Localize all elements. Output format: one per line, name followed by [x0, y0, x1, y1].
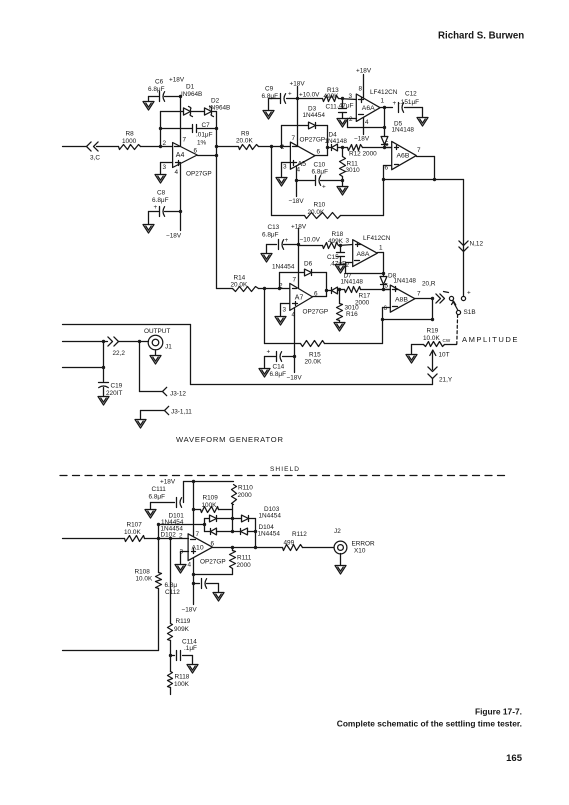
wire A8A pin2 box	[346, 263, 384, 274]
capacitor C11	[326, 99, 354, 119]
svg-text:+18V: +18V	[169, 77, 185, 84]
ground A4 pin3	[155, 175, 166, 184]
capacitor C111	[149, 482, 184, 508]
diode D102	[161, 526, 217, 539]
svg-text:7: 7	[183, 137, 187, 144]
resistor R108	[63, 539, 162, 651]
ground for C14	[259, 357, 270, 378]
wire A4 feedback left	[160, 112, 162, 147]
node ladder mid top	[231, 517, 234, 520]
resistor R9	[217, 131, 291, 150]
wire A10 pin3 gnd	[181, 552, 189, 565]
diode D3	[303, 106, 326, 129]
wire A7 pin3 gnd	[281, 304, 290, 317]
svg-text:A8B: A8B	[395, 297, 408, 304]
node +18V/C6	[179, 95, 182, 98]
svg-text:7: 7	[293, 277, 297, 284]
svg-text:6: 6	[317, 149, 321, 156]
wire A4 pin7 +18V	[169, 77, 185, 147]
svg-text:7: 7	[292, 135, 296, 142]
svg-text:LF412CN: LF412CN	[363, 235, 391, 242]
svg-text:N,12: N,12	[470, 241, 484, 248]
wire A10 output	[213, 547, 283, 549]
resistor R8	[119, 131, 141, 150]
svg-text:6.8μF: 6.8μF	[262, 93, 279, 100]
svg-text:OP27GP: OP27GP	[300, 137, 326, 144]
node C7 right	[215, 127, 218, 130]
svg-text:3: 3	[349, 93, 353, 100]
node R10 tap	[270, 145, 273, 148]
svg-text:C111: C111	[152, 486, 167, 493]
diode D5	[381, 121, 414, 148]
node +18V lower	[192, 480, 195, 483]
svg-text:D102: D102	[161, 532, 177, 539]
svg-text:1N4148: 1N4148	[325, 138, 348, 145]
resistor R110	[232, 485, 254, 505]
svg-text:X10: X10	[354, 548, 366, 555]
svg-text:.151μF: .151μF	[399, 99, 419, 106]
svg-text:100K: 100K	[202, 502, 218, 509]
svg-text:R9: R9	[241, 131, 250, 138]
op-amp A10	[179, 531, 226, 569]
svg-text:1%: 1%	[197, 140, 207, 147]
node ladder mid bottom	[231, 530, 234, 533]
svg-text:D6: D6	[304, 261, 313, 268]
arrow J3-12	[163, 387, 187, 397]
svg-text:1: 1	[381, 98, 385, 105]
svg-text:165: 165	[506, 753, 523, 764]
svg-text:ERROR: ERROR	[352, 541, 375, 548]
svg-text:J3-1,11: J3-1,11	[171, 409, 192, 416]
svg-text:1N4454: 1N4454	[258, 531, 281, 538]
svg-text:R14: R14	[234, 275, 246, 282]
svg-text:10.0K: 10.0K	[124, 529, 141, 536]
node R108 tap	[157, 537, 160, 540]
svg-text:6: 6	[211, 541, 215, 548]
wire A10 pin7 +18V	[160, 479, 194, 537]
svg-text:Figure 17-7.: Figure 17-7.	[475, 707, 522, 717]
svg-text:C7: C7	[202, 122, 211, 129]
node +18V/C13/R18	[297, 243, 300, 246]
svg-text:2000: 2000	[238, 492, 253, 499]
diode D7	[327, 273, 364, 294]
node ladder left	[203, 523, 206, 526]
svg-text:R19: R19	[427, 328, 439, 335]
svg-text:R17: R17	[359, 293, 371, 300]
svg-text:S1B: S1B	[464, 309, 476, 316]
svg-text:8: 8	[359, 86, 363, 93]
svg-text:C8: C8	[157, 190, 166, 197]
svg-text:A7: A7	[295, 295, 304, 302]
svg-text:+: +	[288, 91, 292, 98]
svg-text:+: +	[267, 349, 271, 356]
node R15 tap	[263, 287, 266, 290]
capacitor C19	[99, 383, 123, 398]
node ladder right mid	[254, 530, 257, 533]
svg-text:1: 1	[379, 245, 383, 252]
arrow N,12	[459, 241, 484, 252]
svg-text:C14: C14	[273, 364, 285, 371]
ground R19	[406, 345, 417, 364]
svg-text:+: +	[322, 184, 326, 191]
wire A6B pin5	[385, 147, 392, 149]
svg-text:20.0K: 20.0K	[308, 209, 325, 216]
resistor R10	[272, 147, 384, 219]
arrow 22,2	[108, 337, 125, 357]
resistor R17	[340, 287, 391, 307]
svg-text:A6B: A6B	[397, 153, 410, 160]
svg-text:+18V: +18V	[290, 81, 306, 88]
op-amp A4	[163, 137, 212, 178]
svg-text:4: 4	[188, 562, 192, 569]
svg-text:1N4148: 1N4148	[392, 127, 415, 134]
svg-text:LF412CN: LF412CN	[370, 89, 398, 96]
connector J2	[334, 528, 375, 555]
svg-text:10T: 10T	[439, 352, 450, 359]
wire bus to R14	[217, 288, 233, 290]
svg-text:IN964B: IN964B	[181, 91, 202, 98]
node R109 tap	[192, 508, 195, 511]
svg-text:C13: C13	[268, 224, 280, 231]
svg-text:A10: A10	[192, 545, 204, 552]
ladder left rail	[204, 519, 206, 532]
svg-text:D2: D2	[211, 98, 220, 105]
resistor R11	[340, 148, 361, 181]
svg-text:3: 3	[283, 307, 287, 314]
svg-text:2: 2	[349, 116, 353, 123]
svg-text:−18V: −18V	[287, 375, 303, 382]
wire A4 output bus	[216, 112, 218, 289]
node A6B out fb	[433, 178, 436, 181]
wire A6A out down	[384, 108, 386, 137]
ground for C11	[337, 119, 348, 128]
capacitor C112	[165, 579, 219, 597]
node A4 output/R9	[215, 145, 218, 148]
zener D2	[205, 98, 231, 117]
svg-text:21,Y: 21,Y	[439, 377, 453, 384]
svg-text:−18V: −18V	[289, 198, 305, 205]
switch S1B contact a	[449, 296, 453, 300]
svg-text:.1μF: .1μF	[184, 645, 197, 652]
node C10 right	[341, 179, 344, 182]
wire to N,12	[463, 180, 465, 297]
op-amp A5	[281, 135, 325, 174]
svg-text:2000: 2000	[237, 562, 252, 569]
svg-text:7: 7	[417, 147, 421, 154]
label A7 -18V	[287, 375, 303, 382]
wire ladder to input	[159, 525, 205, 539]
svg-text:R109: R109	[203, 495, 219, 502]
node A7 output/D7	[325, 289, 328, 292]
node R11 tap	[341, 146, 344, 149]
pot R19 wiper	[430, 350, 436, 370]
header author	[438, 31, 524, 42]
svg-text:OP27GP: OP27GP	[303, 309, 329, 316]
ground C111	[145, 503, 156, 519]
label AMPLITUDE	[462, 335, 519, 344]
svg-text:6.8μF: 6.8μF	[148, 86, 165, 93]
svg-text:R119: R119	[176, 618, 191, 625]
svg-text:4: 4	[175, 169, 179, 176]
wire A8A out	[378, 253, 384, 277]
diode D6	[272, 261, 313, 276]
svg-text:3010: 3010	[346, 167, 361, 174]
node A6B pin5	[383, 141, 389, 149]
svg-text:6.8μF: 6.8μF	[152, 197, 169, 204]
wire A5 feedback right	[327, 126, 329, 156]
diode D4	[325, 132, 348, 151]
svg-text:5: 5	[385, 283, 389, 290]
svg-text:AMPLITUDE: AMPLITUDE	[462, 335, 519, 344]
switch S1B contact b	[461, 290, 471, 301]
wire A7 feedback left	[279, 273, 281, 289]
wire A4 pin4 -18V	[166, 165, 182, 240]
wire A5 apex out	[315, 155, 328, 157]
svg-text:J3-12: J3-12	[170, 391, 186, 398]
svg-text:3: 3	[346, 238, 350, 245]
node A4 output apex	[215, 154, 218, 157]
wire A6A pin4 -18V	[354, 118, 370, 143]
svg-text:R107: R107	[127, 522, 143, 529]
ground C112	[213, 584, 224, 602]
svg-text:A4: A4	[176, 152, 185, 159]
resistor R119	[168, 539, 191, 656]
node +18V/C9/R13	[296, 97, 299, 100]
off-page arrow 3,C	[87, 142, 101, 162]
resistor R14	[231, 275, 290, 292]
wire A5 feedback top	[282, 125, 328, 127]
pot R19	[412, 328, 457, 359]
node C19 tap	[102, 340, 105, 343]
ground C114	[187, 656, 198, 674]
resistor R15	[265, 289, 383, 366]
wire A8B out	[415, 299, 433, 320]
op-amp A7	[279, 277, 328, 319]
svg-text:R8: R8	[126, 131, 135, 138]
ground A10 pin3	[175, 565, 186, 574]
svg-text:20,R: 20,R	[422, 281, 436, 288]
svg-text:Richard S. Burwen: Richard S. Burwen	[438, 31, 524, 42]
wire A4 apex to bus	[198, 155, 217, 157]
svg-text:IN964B: IN964B	[209, 105, 230, 112]
diode ladder mid rail	[232, 505, 234, 532]
wire A8B fb bus	[383, 319, 433, 321]
svg-text:.01μF: .01μF	[196, 132, 213, 139]
svg-text:−10.0V: −10.0V	[300, 237, 321, 244]
wire A8B pin5	[384, 289, 391, 291]
svg-text:2: 2	[163, 140, 167, 147]
svg-text:R10: R10	[314, 202, 326, 209]
svg-text:R15: R15	[309, 352, 321, 359]
svg-text:OP27GP: OP27GP	[200, 559, 226, 566]
node A8B pin5	[382, 283, 389, 292]
capacitor C7	[193, 122, 213, 147]
resistor R109	[194, 495, 233, 513]
svg-text:+18V: +18V	[291, 224, 307, 231]
resistor R111	[194, 548, 252, 575]
ground for C10/R11	[337, 181, 348, 196]
svg-text:+18V: +18V	[160, 479, 176, 486]
diode D8	[380, 273, 416, 290]
svg-text:6.8μF: 6.8μF	[149, 494, 166, 501]
resistor R16	[337, 290, 360, 323]
resistor R112	[283, 531, 334, 551]
svg-text:C6: C6	[155, 79, 164, 86]
svg-text:SHIELD: SHIELD	[270, 466, 300, 473]
caption text	[337, 719, 522, 729]
wire A7 feedback top	[280, 272, 327, 274]
node A6A fb	[383, 126, 386, 129]
node A8B out fb	[431, 318, 434, 321]
op-amp A8A	[346, 235, 391, 269]
ladder right rail	[255, 519, 257, 548]
wire A7 apex out	[313, 296, 327, 298]
svg-text:+: +	[467, 290, 471, 297]
svg-text:499: 499	[284, 540, 295, 547]
ground J1	[150, 351, 161, 365]
capacitor C15	[327, 246, 346, 268]
wire A7 pin7 +18V	[291, 224, 307, 289]
connector J1	[144, 328, 172, 351]
node output/ladder	[254, 546, 257, 549]
resistor R107	[124, 522, 189, 542]
node C10 left	[295, 179, 298, 182]
arrow to S1B	[422, 281, 445, 304]
node J3-12 tap	[138, 340, 141, 343]
svg-text:4: 4	[365, 119, 369, 126]
diode D104	[241, 524, 281, 538]
svg-text:OP27GP: OP27GP	[186, 171, 212, 178]
ground J2	[335, 554, 346, 575]
wire A6B out	[417, 157, 435, 180]
wire A4 pin3	[161, 163, 173, 175]
label waveform generator	[176, 435, 284, 444]
ground for C6	[143, 97, 154, 111]
svg-text:C9: C9	[265, 86, 274, 93]
wire A6B fb bus	[384, 179, 464, 181]
op-amp A8B	[384, 285, 422, 312]
wire C7 branch	[161, 128, 217, 130]
svg-text:499K: 499K	[324, 93, 340, 100]
wire zener branch	[161, 111, 217, 113]
ground for C9	[263, 99, 274, 120]
svg-text:1000: 1000	[122, 138, 137, 145]
ground for C15	[335, 265, 346, 274]
wire A6A pin2 box	[348, 119, 385, 128]
page number	[506, 753, 523, 764]
node feedback/C7 left	[159, 127, 162, 130]
svg-text:+18V: +18V	[356, 68, 372, 75]
node A6B fb	[382, 178, 385, 181]
svg-text:20.0K: 20.0K	[231, 282, 248, 289]
svg-text:R118: R118	[175, 674, 190, 681]
svg-text:A6A: A6A	[362, 105, 375, 112]
ground J3-1,11	[135, 420, 146, 429]
svg-text:909K: 909K	[174, 626, 190, 633]
wire C19 branch	[103, 342, 105, 382]
svg-text:C12: C12	[405, 91, 417, 98]
shield dashed line	[60, 475, 505, 477]
node ladder input corner	[157, 523, 160, 526]
ground for C13	[261, 245, 272, 263]
diode D103	[242, 506, 282, 522]
node A5 inverting input	[280, 145, 283, 148]
ground A7 pin3	[275, 317, 286, 326]
svg-text:R108: R108	[135, 569, 151, 576]
wire A5 pin7 +18V	[290, 81, 306, 147]
wire A7 pin4	[294, 309, 296, 373]
wire output J1	[63, 341, 149, 343]
wire A5 pin4 -18V	[289, 167, 305, 206]
svg-text:10.0K: 10.0K	[423, 335, 440, 342]
svg-text:J1: J1	[165, 344, 172, 351]
svg-text:1N4148: 1N4148	[394, 278, 417, 285]
node R119 tap	[169, 537, 172, 540]
svg-text:D1: D1	[186, 84, 195, 91]
svg-text:6: 6	[384, 305, 388, 312]
node C15 tap	[339, 244, 342, 247]
svg-text:−18V: −18V	[182, 607, 198, 614]
node bus3	[102, 366, 105, 369]
arrow J3-1,11	[165, 406, 193, 415]
svg-text:1N4454: 1N4454	[303, 112, 326, 119]
svg-text:6.8μF: 6.8μF	[312, 169, 329, 176]
wire +18V rail	[184, 481, 234, 483]
node R16 tap	[338, 288, 341, 291]
wire A6A pin8 +18V	[356, 68, 372, 98]
svg-text:20.0K: 20.0K	[236, 138, 253, 145]
svg-text:3: 3	[283, 164, 287, 171]
ground A5 pin3	[276, 178, 287, 187]
svg-text:R12 2000: R12 2000	[349, 151, 377, 158]
svg-text:7: 7	[196, 531, 200, 538]
svg-text:2: 2	[179, 533, 183, 540]
svg-text:J2: J2	[334, 528, 341, 535]
ground for C12	[417, 108, 428, 127]
capacitor C13	[262, 224, 299, 250]
diode D101	[161, 513, 217, 527]
resistor R18	[299, 231, 353, 249]
svg-text:+: +	[154, 204, 158, 211]
svg-text:6: 6	[194, 148, 198, 155]
ground C19	[98, 397, 109, 406]
svg-text:R112: R112	[292, 531, 307, 538]
svg-text:C19: C19	[111, 383, 123, 390]
svg-text:20.0K: 20.0K	[305, 359, 322, 366]
node A6A output	[383, 106, 386, 109]
svg-text:+10.0V: +10.0V	[299, 92, 320, 99]
svg-text:+: +	[393, 100, 397, 107]
node C11 tap	[341, 97, 344, 100]
node R111 return	[192, 573, 195, 576]
wire input net 3,C	[63, 146, 119, 148]
svg-text:499K: 499K	[328, 238, 344, 245]
svg-text:C11: C11	[326, 104, 338, 111]
wire J3-1,11	[141, 411, 165, 420]
ladder bottom branch	[205, 531, 256, 533]
zener D1	[181, 84, 202, 117]
svg-text:OUTPUT: OUTPUT	[144, 328, 170, 335]
capacitor C14	[265, 349, 295, 378]
svg-text:1N4454: 1N4454	[259, 513, 282, 520]
svg-text:22,2: 22,2	[113, 350, 126, 357]
capacitor C12	[381, 91, 423, 113]
svg-text:Complete schematic of the sett: Complete schematic of the settling time …	[337, 719, 522, 729]
svg-text:.47μF: .47μF	[337, 103, 354, 110]
wire A6B pin6	[384, 166, 392, 216]
svg-text:1N4454: 1N4454	[272, 264, 295, 271]
caption figure number	[475, 707, 522, 717]
